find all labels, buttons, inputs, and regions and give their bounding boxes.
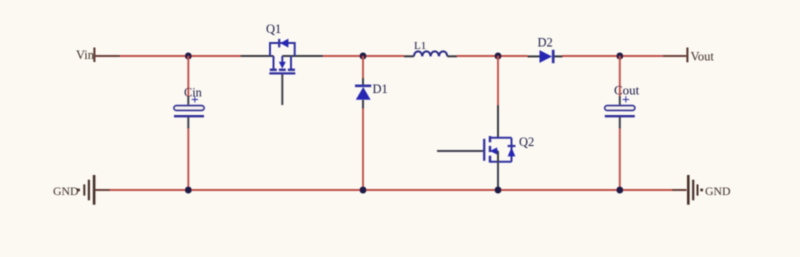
wire bottom rail xyxy=(96,189,687,191)
svg-text:+: + xyxy=(191,92,199,107)
inductor L1 xyxy=(404,51,457,56)
wire Cout upper xyxy=(619,56,621,96)
bulk lead xyxy=(496,150,498,152)
node junction dot bottom Cin xyxy=(185,187,192,194)
bulk stub xyxy=(281,56,283,63)
wire top rail D2 to Vout xyxy=(562,55,663,57)
wire dark segment near GND left xyxy=(96,189,111,191)
svg-text:Q2: Q2 xyxy=(519,135,534,149)
gate bar xyxy=(269,72,295,74)
body diode bridge xyxy=(270,43,295,56)
pin D1 top xyxy=(362,78,364,85)
pin Cout top xyxy=(619,96,621,105)
wire Cin upper xyxy=(187,56,189,96)
bulk arrow Q1 xyxy=(279,62,286,69)
node Vin terminal bar xyxy=(93,48,95,63)
ground left symbol xyxy=(77,175,94,205)
svg-text:Q1: Q1 xyxy=(266,22,281,36)
channel segments xyxy=(270,69,295,72)
wire dark segment near GND right xyxy=(672,189,687,191)
wire top rail L1 to D2 xyxy=(457,55,528,57)
node junction dot top Q2 xyxy=(495,53,502,60)
body diode Q1 triangle xyxy=(280,39,288,48)
transistor Q2 (N-MOSFET with body diode, gate left) xyxy=(484,136,515,163)
wire D1 upper xyxy=(362,56,364,78)
wire Cout lower red xyxy=(619,129,621,191)
capacitor Cin xyxy=(174,106,204,117)
pin gate lead Q1 xyxy=(281,75,283,106)
svg-text:L1: L1 xyxy=(414,40,426,52)
wire top rail Q1 to L1 xyxy=(323,55,404,57)
svg-text:D2: D2 xyxy=(538,36,553,50)
wire dark segment near Vin xyxy=(96,55,121,57)
diode D1 xyxy=(355,85,371,88)
pin gate lead Q2 xyxy=(437,150,483,152)
wire Cin lower dark xyxy=(187,117,189,128)
pin Cin top xyxy=(187,96,189,105)
node junction dot top Cout xyxy=(616,53,623,60)
body diode Q2 triangle xyxy=(508,147,516,156)
wire dark segment near Vout xyxy=(663,55,686,57)
svg-text:Vin: Vin xyxy=(76,48,95,62)
capacitor Cout xyxy=(605,106,635,117)
gate bar xyxy=(483,139,485,161)
wire D1 lower xyxy=(362,109,364,191)
body diode bridge right xyxy=(511,138,513,162)
pin drain lead xyxy=(241,55,274,57)
ground right symbol xyxy=(688,175,703,205)
node Vout terminal bar xyxy=(686,48,688,63)
pin source stub and bridge bottom xyxy=(490,161,512,163)
wire Q2 drain upper red xyxy=(497,56,499,105)
pin source lead xyxy=(282,55,323,57)
body diode bar xyxy=(508,145,516,147)
node junction dot bottom Cout xyxy=(616,187,623,194)
wire Cout lower dark xyxy=(619,117,621,128)
wire top rail Vin to Q1 xyxy=(96,55,241,57)
svg-text:GND: GND xyxy=(705,184,731,198)
wire Q2 drain dark xyxy=(497,105,499,138)
svg-text:GND: GND xyxy=(53,184,79,198)
node junction dot top Cin xyxy=(185,53,192,60)
channel segments xyxy=(489,136,492,163)
diode D2 xyxy=(528,50,563,63)
transistor Q1 (P-MOSFET with body diode, gate down) xyxy=(241,39,324,74)
svg-text:+: + xyxy=(622,92,630,107)
bulk arrow Q2 xyxy=(490,147,497,154)
svg-text:D1: D1 xyxy=(373,82,388,96)
node junction dot top D1 xyxy=(360,53,367,60)
wire Q2 source dark xyxy=(497,162,499,187)
node junction dot bottom D1 xyxy=(360,187,367,194)
wire Cin lower red xyxy=(187,129,189,191)
pin drain stub and bridge top xyxy=(490,137,512,139)
svg-text:Vout: Vout xyxy=(691,50,715,64)
node junction dot bottom Q2 xyxy=(495,187,502,194)
